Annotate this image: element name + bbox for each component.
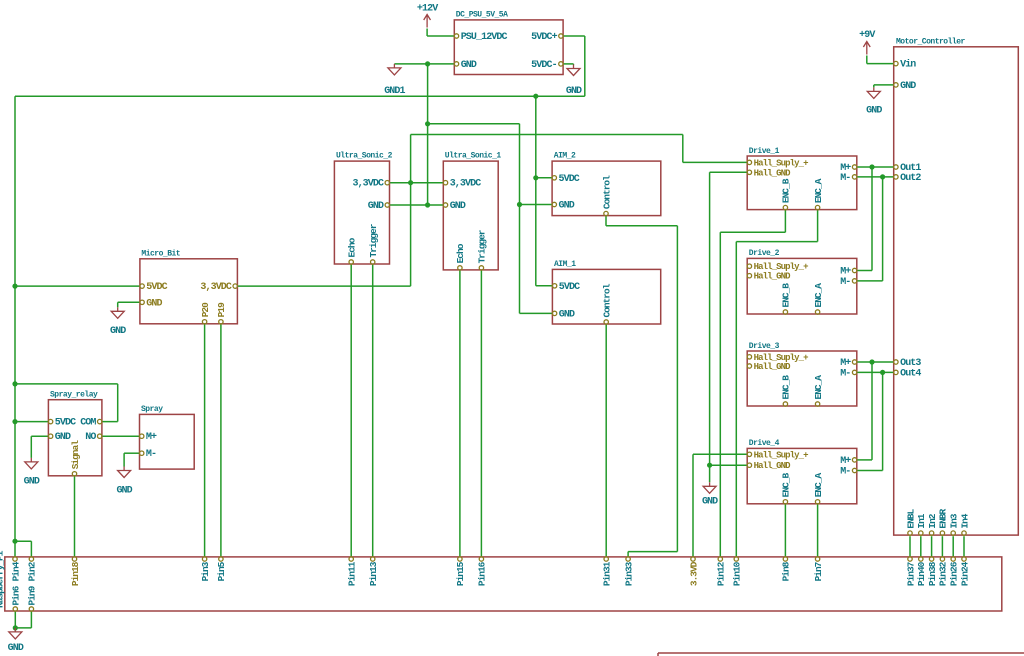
svg-text:5VDC+: 5VDC+ [531,32,557,43]
svg-text:Pin9: Pin9 [27,585,38,605]
component Drive_4 [747,439,857,504]
svg-text:ENC_A: ENC_A [813,472,824,497]
junction [533,94,538,99]
wire 5VDC+ to Spray_relay 5VDC [15,421,48,423]
wire M+ bus to Drive_4 [857,362,872,460]
svg-text:Micro_Bit: Micro_Bit [141,250,180,259]
svg-text:Echo: Echo [347,237,358,257]
svg-text:Spray_relay: Spray_relay [50,391,98,400]
wire Ultra_Sonic_1 Echo to Pin15 [459,270,461,557]
wire PSU GND to GND1 [394,63,454,65]
wire 3,3VDC to Drive_1 Hall_Suply [411,135,748,163]
svg-text:ENC_A: ENC_A [813,375,824,400]
junction [12,381,17,386]
wire 5V bus to AIM boxes [535,96,537,286]
wire Drive_3 M+ to Out3 [857,361,894,363]
svg-text:ENBR: ENBR [938,508,949,528]
junction [880,370,885,375]
svg-text:Pin32: Pin32 [938,561,949,586]
svg-text:GND: GND [8,643,24,654]
svg-text:Pin40: Pin40 [916,561,927,586]
svg-text:Pin24: Pin24 [959,561,970,586]
svg-text:GND: GND [368,201,384,212]
wire ultrasonic GND link [390,204,444,206]
svg-text:Pin8: Pin8 [781,561,792,581]
sheet outline bottom right [658,653,1024,656]
svg-text:Hall_GND: Hall_GND [754,461,792,471]
svg-text:ENC_B: ENC_B [781,472,792,497]
wire to AIM_1 5VDC [536,285,553,287]
svg-text:Drive_2: Drive_2 [749,249,780,258]
junction [425,61,430,66]
wire ultrasonic 3,3VDC link [390,182,444,184]
svg-text:Hall_Suply_+: Hall_Suply_+ [754,262,809,272]
junction [517,202,522,207]
svg-text:In1: In1 [916,513,927,528]
wire Drive_1 ENC_B to Pin12 [720,210,785,558]
svg-text:Control: Control [601,175,612,209]
wire PSU 5VDC- to GND [563,63,573,66]
svg-text:Pin33: Pin33 [623,561,634,586]
wire 5VDC+ from PSU [15,36,585,96]
component Spray [140,405,195,469]
component Raspberry_Pi connector [0,550,1002,611]
svg-text:In2: In2 [927,513,938,528]
svg-text:GND: GND [110,326,126,337]
svg-text:Pin38: Pin38 [927,561,938,586]
svg-text:M-: M- [840,467,850,478]
component Drive_3 [747,342,857,406]
svg-text:Pin6: Pin6 [11,585,22,605]
wire Motor_Controller GND [874,85,894,88]
svg-text:5VDC: 5VDC [559,174,580,185]
svg-text:Pin11: Pin11 [347,561,358,586]
wire Drive_1 Hall_GND down [710,172,748,482]
junction [533,175,538,180]
wire Pin9 to GND [15,611,31,628]
svg-text:Ultra_Sonic_1: Ultra_Sonic_1 [445,152,502,161]
wire Ultra_Sonic_2 Echo to Pin11 [350,264,352,557]
svg-text:Pin26: Pin26 [949,561,960,586]
svg-text:Pin37: Pin37 [905,561,916,586]
junction [12,539,17,544]
svg-text:Control: Control [602,283,613,317]
svg-text:ENC_A: ENC_A [813,178,824,203]
svg-text:Pin4: Pin4 [10,561,21,581]
svg-text:In3: In3 [949,513,960,528]
svg-text:Pin16: Pin16 [477,561,488,586]
svg-text:In4: In4 [959,513,970,528]
wire Ultra_Sonic_1 Trigger to Pin16 [480,270,482,557]
wire 5VDC+ to Micro_Bit 5VDC [15,285,140,287]
wire P19 to Pin5 [220,324,222,557]
svg-text:M+: M+ [840,358,851,369]
wire Drive_1 M- to Out2 [857,176,894,178]
wire M- bus to Drive_2 [857,177,883,281]
svg-text:ENC_B: ENC_B [781,375,792,400]
svg-text:M-: M- [146,449,156,460]
svg-text:Pin18: Pin18 [70,561,81,586]
wire Pin6 to GND [14,611,16,628]
svg-text:ENC_B: ENC_B [781,283,792,308]
svg-text:5VDC: 5VDC [146,282,167,293]
svg-text:Raspberry_Pi: Raspberry_Pi [0,550,6,608]
svg-text:Pin10: Pin10 [732,561,743,586]
wire ENBL to Pin37 [909,536,911,556]
svg-text:GND: GND [559,201,575,212]
svg-text:GND: GND [559,309,575,320]
component Spray_relay [48,391,102,476]
wire Spray_relay GND [31,436,48,458]
power +9V [859,30,875,55]
junction [869,164,874,169]
svg-text:Drive_3: Drive_3 [749,342,780,351]
svg-text:M+: M+ [840,267,851,278]
svg-text:Vin: Vin [900,59,916,71]
junction [12,419,17,424]
junction [425,202,430,207]
svg-text:Pin13: Pin13 [368,561,379,586]
svg-text:5VDC-: 5VDC- [531,60,557,71]
svg-text:3,3VDC: 3,3VDC [352,179,384,190]
svg-text:Echo: Echo [455,243,466,263]
wire M- bus to Drive_4 [857,372,883,470]
component AIM_2 [552,152,661,216]
svg-text:Trigger: Trigger [477,229,488,263]
wire 5VDC+ to Pin2 [15,541,31,557]
svg-text:DC_PSU_5V_5A: DC_PSU_5V_5A [456,11,508,20]
svg-text:GND: GND [461,60,477,71]
svg-text:Motor_Controller: Motor_Controller [896,38,966,47]
wire Drive_4 ENC_A to Pin7 [817,504,819,557]
svg-text:ENC_B: ENC_B [781,178,792,203]
svg-text:GND: GND [55,432,71,443]
svg-text:+9V: +9V [859,30,875,41]
svg-text:GND: GND [146,298,162,309]
svg-text:Out3: Out3 [900,358,921,369]
power +12V [417,4,438,28]
wire Ultra_Sonic_2 Trigger to Pin13 [372,264,374,557]
wire 5VDC+ to Spray_relay COM [15,384,118,422]
svg-text:Pin12: Pin12 [716,561,727,586]
wire AIM_2 Control to Pin33 [606,216,677,558]
svg-text:3.3VD: 3.3VD [688,561,699,586]
wire to AIM_2 GND [520,204,553,206]
svg-text:P20: P20 [200,302,211,317]
wire to AIM_1 GND [520,312,553,314]
wire In2 to Pin38 [931,536,933,556]
svg-text:Ultra_Sonic_2: Ultra_Sonic_2 [336,152,393,161]
wire P20 to Pin3 [204,324,206,557]
svg-text:GND: GND [866,106,882,117]
svg-text:5VDC: 5VDC [559,282,580,293]
ground GND Drive_4 Hall [702,482,718,507]
svg-text:GND: GND [900,81,916,92]
wire AIM_1 Control to Pin31 [605,324,607,557]
wire ENBR to Pin32 [941,536,943,556]
svg-text:Pin15: Pin15 [455,561,466,586]
svg-text:M-: M- [840,277,850,288]
svg-text:Trigger: Trigger [368,223,379,257]
svg-text:AIM_1: AIM_1 [554,260,576,269]
ground GND Micro_Bit [110,307,126,337]
junction [12,284,17,289]
wire In4 to Pin24 [963,536,965,556]
svg-text:Pin5: Pin5 [216,561,227,581]
svg-text:Pin3: Pin3 [200,561,211,581]
ground GND Raspberry pins [8,628,24,654]
svg-text:ENBL: ENBL [905,508,916,528]
svg-text:M+: M+ [146,432,157,443]
wire GND bus down [427,64,429,205]
svg-text:GND: GND [116,486,132,497]
junction [869,359,874,364]
wire 5VDC+ left bus [14,96,16,557]
svg-text:Hall_GND: Hall_GND [754,272,792,282]
wire Spray_relay Signal to Pin18 [74,476,76,557]
svg-text:GND: GND [566,86,582,97]
svg-text:P19: P19 [216,302,227,317]
svg-text:3,3VDC: 3,3VDC [200,282,232,293]
wire +12V to PSU_12VDC [427,29,454,37]
wire to AIM_2 5VDC [536,177,552,179]
wire M+ bus to Drive_2 [857,167,872,271]
svg-text:PSU_12VDC: PSU_12VDC [461,32,508,43]
component Drive_2 [747,249,857,314]
svg-text:Pin31: Pin31 [602,561,613,586]
ground GND near PSU [566,65,582,98]
junction [425,121,430,126]
ground GND Spray_relay [24,458,40,488]
svg-text:Signal: Signal [70,440,81,470]
component Drive_1 [747,147,857,210]
svg-text:5VDC: 5VDC [55,418,76,429]
svg-text:Pin7: Pin7 [813,561,824,581]
svg-text:M-: M- [840,173,850,184]
component Motor_Controller [894,38,1019,536]
junction [707,463,712,468]
junction [13,625,18,630]
ground GND Motor_Controller [866,87,882,116]
svg-text:GND: GND [702,497,718,508]
svg-text:Pin2: Pin2 [27,561,38,581]
junction [880,174,885,179]
wire Spray_relay NO to Spray M+ [102,435,140,437]
svg-text:COM: COM [80,418,96,429]
wire to Drive_4 Hall_GND [710,464,748,466]
svg-text:Hall_Suply_+: Hall_Suply_+ [754,158,809,168]
svg-text:ENC_A: ENC_A [813,283,824,308]
svg-text:+12V: +12V [417,4,438,15]
junction [408,180,413,185]
svg-text:AIM_2: AIM_2 [554,152,576,161]
wire Drive_4 ENC_B to Pin8 [784,504,786,557]
svg-text:Spray: Spray [141,405,163,414]
wire Drive_3 M- to Out4 [857,371,894,373]
svg-text:GND1: GND1 [384,86,405,97]
svg-text:Hall_Suply_+: Hall_Suply_+ [754,450,809,460]
svg-text:Drive_4: Drive_4 [749,439,780,448]
svg-text:Hall_GND: Hall_GND [754,362,792,372]
ground GND1 [384,64,405,97]
component Ultra_Sonic_1 [443,152,501,271]
svg-text:GND: GND [24,477,40,488]
svg-text:Out4: Out4 [900,368,921,379]
ground GND Spray [116,467,132,497]
svg-text:Drive_1: Drive_1 [749,147,780,156]
svg-text:M+: M+ [840,456,851,467]
wire Drive_1 ENC_A to Pin10 [736,210,817,558]
wire In1 to Pin40 [920,536,922,556]
component Micro_Bit [140,250,238,324]
wire Micro_Bit GND [118,302,140,307]
wire Spray M- to GND [124,453,139,466]
wire 3.3VD to Drive_4 Hall_Suply [693,454,747,557]
svg-text:3,3VDC: 3,3VDC [450,179,482,190]
wire GND branch to AIM boxes [428,124,520,314]
wire 3,3VDC Micro_Bit to bus [237,135,410,287]
wire Drive_1 M+ to Out1 [857,166,894,168]
svg-text:GND: GND [450,201,466,212]
wire +9V to Vin [867,56,894,64]
component Ultra_Sonic_2 [334,152,392,265]
component DC_PSU_5V_5A [454,11,563,75]
svg-text:NO: NO [85,432,96,443]
svg-text:Hall_GND: Hall_GND [754,168,792,178]
svg-text:M-: M- [840,368,850,379]
component AIM_1 [552,260,660,324]
wire In3 to Pin26 [952,536,954,556]
svg-text:Out2: Out2 [900,173,921,184]
